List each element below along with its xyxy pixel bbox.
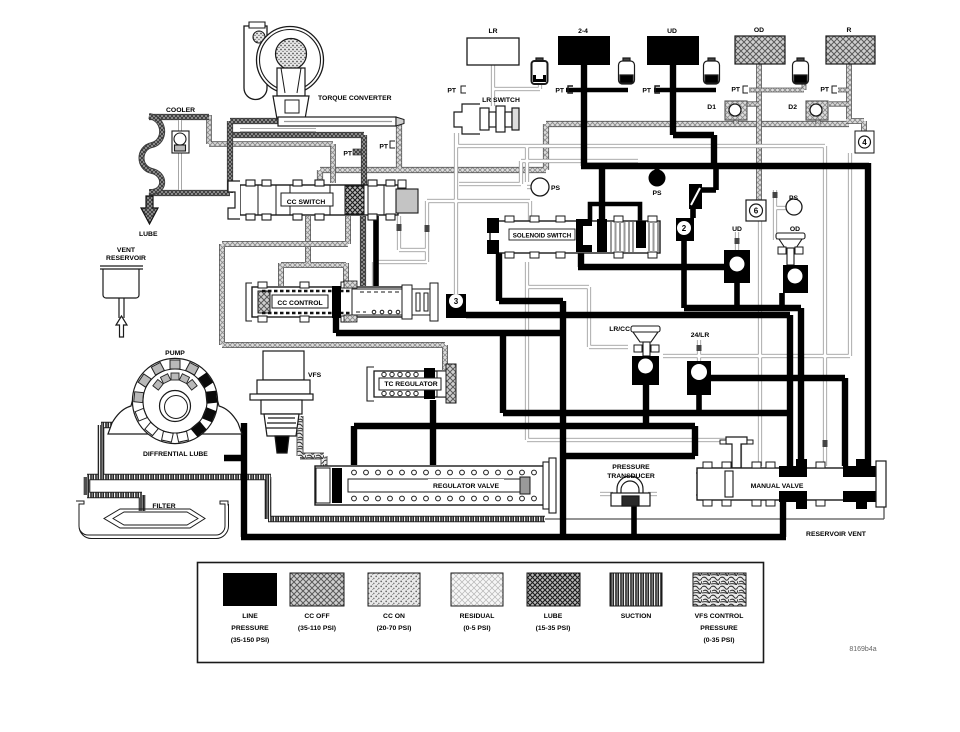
svg-text:TRANSDUCER: TRANSDUCER [607,473,655,480]
wire D1 D2 stubs (fill) [736,104,849,124]
svg-text:LR: LR [488,28,497,35]
accumulator UD [704,58,720,84]
svg-text:CC OFF: CC OFF [304,613,329,620]
UD clutch box [647,36,699,65]
wire 24LR right to manual valve y378 [711,378,845,466]
wire y308 trunk [684,308,801,466]
wire y317 trunk from x563 [466,315,790,470]
wire relief to node2 and node2 leg to y267 trunk [684,208,693,308]
svg-text:LINE: LINE [242,613,258,620]
wire UD PT stub and accumulator link [654,88,716,93]
svg-text:CC ON: CC ON [383,613,405,620]
wire OD accumulator link and PT stub (edges) [749,83,849,90]
pump [108,358,242,443]
wire R riser and elbow to box4 (edges) [846,64,864,131]
wire stub to pressure switch ball [655,166,660,172]
wire UD riser jog [673,64,714,169]
filter [76,501,229,539]
wire left big loop (fill) [222,216,445,370]
OD clutch box [735,36,785,64]
wire R riser and elbow to box4 (fill) [846,64,864,131]
node 3 black square with circle [446,294,466,318]
box with circled 4 [855,131,874,153]
pressure transducer [611,476,650,506]
wire OD riser (fill) [757,64,761,200]
wire 2-4 PT stub and accumulator link [566,88,628,93]
svg-text:VFS: VFS [308,372,322,379]
wire UD piston stem [734,283,740,308]
pressure switch black [649,170,666,187]
svg-text:R: R [847,27,852,34]
svg-text:PT: PT [555,88,565,95]
wire cc-control leg to y413 trunk [336,317,790,413]
svg-text:SUCTION: SUCTION [621,613,652,620]
svg-text:UD: UD [667,28,677,35]
wire OD piston stem [779,293,785,308]
OD piston [783,265,808,293]
svg-text:3: 3 [454,297,459,306]
svg-text:D1: D1 [707,104,716,111]
svg-text:PT: PT [343,151,353,158]
svg-text:COOLER: COOLER [166,107,195,114]
svg-text:(0-5 PSI): (0-5 PSI) [463,625,490,632]
pressure switch white right [786,199,802,215]
vfs solenoid [250,351,313,453]
thin reservoir vent line [545,501,884,519]
svg-text:VFS CONTROL: VFS CONTROL [695,613,744,620]
svg-text:PUMP: PUMP [165,350,185,357]
svg-text:REGULATOR VALVE: REGULATOR VALVE [433,483,499,490]
box with circled 6 [746,200,766,221]
svg-text:UD: UD [732,226,742,233]
svg-text:PS: PS [551,185,561,192]
LR/CC funnel [631,326,660,356]
svg-text:VENT: VENT [117,247,136,254]
svg-text:PRESSURE: PRESSURE [700,625,738,632]
cc control valve [246,281,438,322]
wire 2-4 riser and main line-pressure trunk y166 down to manual valve [581,64,869,466]
wire left big loop: cc-switch to lube trunk y345 to TC regulator (edges) [222,216,445,370]
solenoid switch valve [487,216,660,258]
svg-text:RESERVOIR: RESERVOIR [106,255,146,262]
LR/CC piston [632,356,659,385]
svg-text:6: 6 [754,207,759,216]
svg-text:LR/CC: LR/CC [609,326,630,333]
regulator valve [315,458,556,513]
D1 checkball [725,101,747,120]
PT tap symbols [390,86,837,148]
manual valve lever [720,437,753,468]
svg-text:(0-35 PSI): (0-35 PSI) [704,637,735,644]
svg-text:(20-70 PSI): (20-70 PSI) [377,625,412,632]
svg-text:OD: OD [790,226,800,233]
R clutch box [826,36,875,64]
svg-text:CC SWITCH: CC SWITCH [287,199,326,206]
wire D1 D2 stubs (edges) [736,104,849,124]
svg-text:(35-150 PSI): (35-150 PSI) [231,637,270,644]
svg-text:(35-110 PSI): (35-110 PSI) [298,625,336,632]
wire pressure transducer stem [631,506,637,537]
UD piston [724,250,750,283]
tc regulator valve [367,364,456,403]
wire cc-switch risers to cc-control U pipe (fill) [281,216,346,286]
24/LR piston [687,361,711,395]
torque converter body [244,22,324,119]
lr switch valve [454,104,519,134]
svg-text:PT: PT [642,88,652,95]
svg-text:FILTER: FILTER [152,503,175,510]
wire cc-switch black leg to cc-control [373,216,379,286]
svg-text:RESERVOIR VENT: RESERVOIR VENT [806,531,867,538]
wire cc-off trunk torque-converter to right (fill) [320,123,849,183]
wire light riser x333 into cc-switch (fill) [209,115,333,183]
lube arrow [141,196,158,224]
svg-text:LUBE: LUBE [544,613,563,620]
accumulator OD [793,58,809,84]
svg-text:SOLENOID SWITCH: SOLENOID SWITCH [513,233,572,240]
svg-text:PT: PT [731,87,741,94]
wire solenoid switch frame and riser [599,166,605,221]
accumulator LR [532,58,548,84]
svg-text:8169b4a: 8169b4a [849,646,876,653]
accumulator 2-4 [619,58,635,84]
cooler bypass ball valve [172,131,189,153]
legend [198,563,764,663]
wire solenoid-left leg to x563 vertical down to bottom trunk [499,253,563,537]
LR clutch box [467,38,519,65]
wire cooler return line to torque converter (edges) [149,121,280,193]
wire cc-off trunk torque-converter to right (edges) [320,123,849,183]
svg-text:PS: PS [789,195,799,202]
svg-text:OD: OD [754,27,764,34]
svg-text:(15-35 PSI): (15-35 PSI) [536,625,571,632]
wire lube line from cooler to cc-switch (fill) [149,117,364,286]
svg-text:PT: PT [379,144,389,151]
wire cooler return line (fill) [149,121,280,193]
svg-text:MANUAL VALVE: MANUAL VALVE [751,483,804,490]
cooler coil zigzag [142,116,163,192]
svg-text:DIFFRENTIAL LUBE: DIFFRENTIAL LUBE [143,451,208,458]
svg-text:PS: PS [652,190,662,197]
vent reservoir [100,266,143,337]
suction trunk (fill) [87,425,545,519]
cooler bypass pipe [178,120,182,190]
wire y267 trunk solenoid switch to UD piston [578,243,726,267]
svg-text:RESIDUAL: RESIDUAL [460,613,495,620]
restrictor ticks on white pipes [397,192,828,447]
svg-text:4: 4 [862,138,867,147]
torque converter outlet channel [278,117,404,126]
D2 checkball [806,101,828,120]
svg-text:TC REGULATOR: TC REGULATOR [384,381,437,388]
svg-text:2-4: 2-4 [578,28,588,35]
wire OD riser (edges) [756,64,762,200]
svg-text:24/LR: 24/LR [691,332,710,339]
pressure switch white left [531,178,549,196]
svg-text:LR SWITCH: LR SWITCH [482,97,520,104]
wire cc-switch risers to cc-control U pipe (edges) [281,216,346,286]
svg-text:PT: PT [820,87,830,94]
svg-text:PRESSURE: PRESSURE [612,464,650,471]
svg-text:TORQUE CONVERTER: TORQUE CONVERTER [318,95,392,102]
wire light riser x333 into cc-switch (edges) [209,115,333,183]
svg-text:PRESSURE: PRESSURE [231,625,269,632]
torque converter lower white channel [240,128,316,132]
cc switch valve [228,180,418,220]
wire lube line from cooler to cc-switch (edges) [149,117,364,286]
wire relief valve branch from trunk [700,166,716,190]
wire OD accumulator link and PT stub (fill) [749,83,849,90]
svg-text:LUBE: LUBE [139,231,158,238]
svg-text:D2: D2 [788,104,797,111]
wire y426 trunk with legs [354,385,695,465]
manual valve [696,459,886,509]
wire pump leg, diff lube stub, bottom trunk y537 [224,423,786,537]
wire 24LR piston stem to y413 [696,395,702,413]
svg-text:PT: PT [447,88,457,95]
white pipe LR box riser and accumulator link [374,65,850,494]
svg-text:2: 2 [682,224,687,233]
vfs control scribble pipe (fill) [300,416,324,480]
2-4 clutch box [558,36,610,65]
svg-text:CC CONTROL: CC CONTROL [277,300,322,307]
vfs control scribble pipe (edges) [300,416,324,480]
node 2 black square with circle [676,218,694,241]
suction trunk filter-pump (edges) [87,425,545,519]
relief valve symbol [689,184,702,209]
OD funnel [776,233,805,265]
